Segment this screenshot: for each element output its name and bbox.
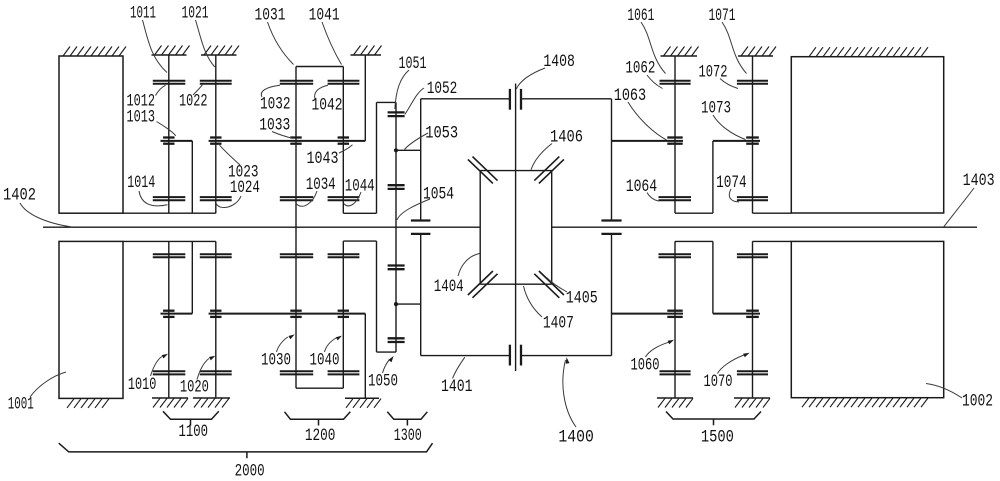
svg-text:1032: 1032 [260,95,291,115]
brace 2000 [59,443,433,458]
leader for 1024 [216,196,241,208]
wire: shaft 1041 bottom step [343,212,376,214]
shaft 1011 [168,55,170,213]
svg-text:1500: 1500 [701,428,734,448]
svg-text:1060: 1060 [631,356,660,376]
leader for 1032 [261,85,280,97]
wire: bottom bar left segment [421,355,510,357]
gear 1042 [328,81,360,84]
svg-text:1002: 1002 [962,392,993,412]
svg-text:1071: 1071 [709,6,736,26]
bevel mark bottom-left (1404) [468,271,498,298]
gear 1072 mirror [737,371,768,374]
svg-text:1405: 1405 [566,289,598,309]
leader for 1060 [646,342,669,357]
clutch 1063 [667,138,682,144]
leader for 1405 [547,278,568,293]
leader for 1042 [315,85,328,99]
svg-text:1063: 1063 [614,86,647,106]
center shaft of differential [515,84,517,372]
svg-text:1011: 1011 [130,4,156,24]
wire: hub line mirror to 1073 [713,313,760,315]
svg-text:1050: 1050 [368,371,398,391]
clutch plate 1054 lower [411,233,431,235]
motor block 1002 (bottom half) [791,241,943,397]
leader for 1400 [563,360,576,427]
svg-text:1073: 1073 [701,99,731,119]
fixed support below shaft 1070 [734,398,770,408]
clutch plate 1054 upper [411,219,431,221]
clutch 1408 plates [510,89,521,110]
leader for 1030 [277,337,289,352]
svg-text:1064: 1064 [626,177,658,197]
wire: shaft 1070 to right block mirror [753,240,792,242]
leader for 1054 [397,199,430,220]
wire: shaft 1061 bottom to sleeve [675,212,713,214]
leader for 1070 [718,355,745,374]
wire: sleeve right mirror [712,241,714,313]
shaft 1020 [215,241,217,398]
bevel mark top-left (1404 upper) [468,157,498,184]
svg-text:1406: 1406 [550,128,583,148]
wire: top bar right segment [521,98,611,100]
svg-text:1072: 1072 [699,63,728,83]
gear 1022 mirror [200,371,232,374]
leader for 1020 [197,359,209,380]
svg-text:1200: 1200 [305,426,336,446]
leader for 1033 [272,132,293,139]
wire: clutch 1013 hub line [161,140,193,142]
leader for 1061 [641,22,666,74]
clutch 1033 [290,138,301,144]
gear 1072 [737,81,768,84]
leader for 1021 [196,20,215,67]
hatching below left block [67,399,109,408]
leader for 1401 [453,357,465,378]
wire: hub line mirror 1023-1043 [209,313,366,315]
wire: step mirror [343,240,376,242]
leader for 1041 [322,22,342,65]
fixed support below 1040 area [345,398,381,408]
leader for 1074 [729,189,739,202]
wire: drum left edge (bottom) [420,234,422,356]
hatching above right block [809,47,928,57]
gear 1074 mirror [737,254,768,257]
leader for 1408 [516,68,545,89]
svg-text:1040: 1040 [310,351,340,371]
shaft 1040 [342,241,344,388]
wire: sleeve mirror [191,241,193,313]
shaft 1070 [752,241,754,398]
gear 1012 mirror [153,371,186,374]
svg-text:1407: 1407 [543,314,574,334]
gear 1014 [153,197,186,200]
shaft 1061 [674,56,676,213]
wire: drum right edge (top) [611,99,613,221]
clutch 1023 [210,138,221,144]
leader for 1034 [296,191,317,206]
svg-text:1061: 1061 [627,6,654,26]
svg-text:1062: 1062 [625,59,655,79]
svg-text:1024: 1024 [230,178,260,198]
svg-text:1042: 1042 [312,96,343,116]
leader for 1013 [157,122,176,136]
leader for 1063 [628,102,667,140]
wire: clutch hub line mirror [161,313,193,315]
leader for 1031 [268,22,294,65]
gear 1062 mirror [660,371,691,374]
leader for 1406 [531,144,552,170]
differential cage right [551,171,553,285]
wire: shaft 1060 top to sleeve mirror [675,240,713,242]
main shaft 1402 (input axis) [43,226,480,228]
fixed support above shaft 1061 [661,47,699,57]
shaft 1010 [168,241,170,398]
wire: hub line to clutch 1063 [612,140,684,142]
svg-text:1402: 1402 [3,186,36,206]
wire: bottom bar right segment [521,355,611,357]
leader for 1012 [156,85,166,95]
svg-text:1031: 1031 [255,6,286,26]
leader for 1050 [383,360,390,374]
svg-text:1010: 1010 [128,375,156,395]
clutch 1023 mirror [210,311,221,317]
leader for 1002 [926,384,962,399]
gear 1024 mirror [200,254,232,257]
fixed support right of 1041 [351,46,382,56]
svg-text:1401: 1401 [441,377,473,397]
gear 1062 [660,81,691,84]
clutch plate right upper [601,219,621,221]
svg-text:1034: 1034 [306,175,336,195]
wire: 1053 link [396,149,421,151]
svg-text:1408: 1408 [543,52,575,72]
svg-text:1014: 1014 [127,173,155,193]
shaft 1041 [342,67,344,214]
svg-text:1400: 1400 [558,428,594,448]
leader for 1011 [143,20,168,73]
leader for 1023 [220,145,241,165]
motor block 1001 (bottom half) [59,241,123,398]
leader for 1071 [722,22,747,74]
wire: step to shaft 1051 top [377,101,397,103]
gear 1034 mirror [280,254,313,257]
svg-text:1404: 1404 [434,277,464,297]
motor block 1002 (top half) [791,57,943,213]
wire: step to shaft 1050 [377,351,397,353]
gear 1064 [659,197,692,200]
gear 1014 mirror [153,254,186,257]
wire: step vertical mirror [376,241,378,352]
fixed support below shaft 1010 [152,398,188,408]
wire: bracket mirror 1030-1040 [296,387,343,389]
svg-text:1013: 1013 [127,107,156,127]
wire: shaft 1071 bottom to right block [753,212,792,214]
wire: sleeve from 1013 down [191,141,193,213]
leader for 1022 [193,85,203,95]
clutch pair mirror [388,266,405,270]
wire: hub line mirror to 1063 [612,313,684,315]
gear 1012 [153,81,186,84]
svg-text:1052: 1052 [427,79,458,99]
svg-text:1022: 1022 [179,92,208,112]
svg-text:1053: 1053 [425,123,458,143]
clutch 1063 mirror [667,311,682,317]
leader for 1044 [344,192,361,206]
differential cage left [479,171,481,285]
clutch 1073 [746,138,759,144]
leader for 1403 [944,188,974,227]
leader for 1043 [339,145,353,153]
node 1053 mirror junction [394,302,398,306]
leader for 1062 [647,75,663,89]
wire: drum left edge (top) [420,99,422,221]
svg-text:1043: 1043 [307,149,339,169]
leader for 1001 [30,372,66,397]
node 1053 junction [394,148,398,152]
leader for 1404 [458,254,480,277]
clutch 1051/1052 [388,112,405,116]
gear 1044 mirror [328,254,360,257]
leader for 1072 [720,79,738,89]
brace 1100 [163,411,219,425]
gear 1032 [280,81,313,84]
shaft 1021 [215,55,217,213]
wire: step vertical [376,102,378,213]
shaft 1060 [674,241,676,398]
clutch pair lower top-half [388,185,405,189]
clutch 1013 mirror [163,311,174,317]
wire: support to clutch 1043 [364,55,366,141]
gear 1074 [737,197,768,200]
wire: sleeve right side [712,141,714,213]
brace 1300 [387,412,427,426]
clutch 1073 mirror [746,311,759,317]
leader for 1051 [395,70,409,109]
svg-text:1300: 1300 [394,426,422,446]
leader for 1064 [647,193,659,202]
shaft 1031 [295,67,297,389]
clutch 1033 mirror [290,311,301,317]
gear 1064 mirror [659,254,692,257]
leader for 1010 [151,357,163,377]
svg-text:1051: 1051 [399,54,427,74]
shaft 1071 [752,56,754,213]
leader for 1040 [325,338,337,352]
svg-text:2000: 2000 [235,462,265,481]
shaft 105x [395,102,397,352]
gear 1042 mirror [328,371,360,374]
clutch 1013 [163,138,174,144]
wire: support mirror [364,314,366,399]
wire: hub line to clutch 1073 [713,140,760,142]
wire: hub line clutches 1023-1033-1043 [209,140,366,142]
brace 1200 [285,412,351,426]
svg-text:1070: 1070 [704,372,733,392]
clutch 1043 mirror [338,311,349,317]
svg-text:1033: 1033 [259,115,290,135]
svg-text:1021: 1021 [182,4,209,24]
gear 1044 [328,197,360,200]
wire: block top to shafts 1-2 (bottom half) [124,240,216,242]
svg-text:1044: 1044 [345,177,375,197]
svg-text:1054: 1054 [423,184,454,204]
bevel gear line 1406 (top) [480,170,552,172]
leader for 1073 [713,115,746,140]
svg-text:1403: 1403 [963,171,995,191]
bevel mark top-right (1405 upper) [534,157,564,184]
clutch 1051 mirror [388,338,405,342]
leader for 1053 [405,133,429,150]
gear 1022 [200,81,232,84]
fixed support above shaft 1071 [738,47,776,57]
svg-text:1041: 1041 [309,6,340,26]
leader for 1407 [524,286,543,317]
wire: top bar left segment [421,98,510,100]
gear 1024 [200,197,232,200]
wire: drum right edge (bottom) [611,234,613,356]
wire: 1053 link mirror [396,303,421,305]
clutch 1043 [338,138,349,144]
gear 1032 mirror [280,371,313,374]
svg-text:1030: 1030 [261,351,291,371]
bevel mark bottom-right (1405) [534,271,564,298]
leader for 1014 [139,191,168,206]
hatching above left block [63,47,126,57]
wire: bracket joining shafts 1031-1041 [296,66,343,68]
svg-text:1074: 1074 [716,173,747,193]
fixed support above shaft 1021 [201,46,239,56]
hatching below right block [802,398,928,407]
leader for 1052 [405,88,424,115]
clutch plate right lower [601,233,621,235]
wire: block bottom to shafts 1-2 bottom [124,212,216,214]
gear 1034 [280,197,313,200]
leader for 1402 [20,203,72,227]
motor block 1001 (top half) [59,56,123,213]
main shaft 1403 (output axis) [552,226,977,228]
clutch 1400 plates (mirror of 1408) [510,345,521,366]
fixed support below shaft 1060 [657,398,693,408]
bevel gear line 1407 (bottom) [480,283,552,285]
fixed support above shaft 1011 [152,46,190,56]
svg-text:1001: 1001 [8,394,34,414]
brace 1500 [666,412,761,426]
svg-text:1100: 1100 [179,422,209,442]
svg-text:1020: 1020 [180,377,209,397]
fixed support below shaft 1020 [193,398,230,408]
